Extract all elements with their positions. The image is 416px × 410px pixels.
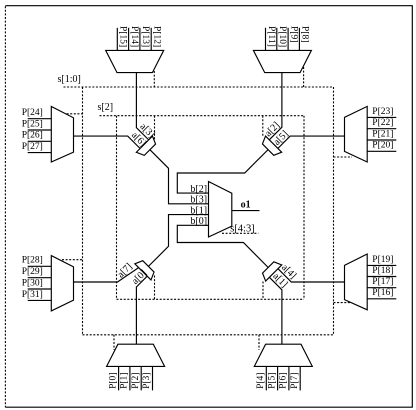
label a[1] xyxy=(271,271,290,290)
wire a[2] (U2 output to U11) xyxy=(269,73,282,140)
label P[6] xyxy=(279,373,289,389)
corner mux U13 (2:1, a[4]/a[1] -> b[0]) xyxy=(260,259,282,281)
s[2] select stub to mux U12 xyxy=(154,276,156,300)
wire a[5] (U4 output to U11) xyxy=(278,136,345,148)
svg-text:P[22]: P[22] xyxy=(372,118,393,128)
mux U6 (right-bottom 4:1, P[19:16]) xyxy=(345,254,368,310)
net s[1:0] dotted bus right xyxy=(333,87,335,335)
label P[10] xyxy=(277,26,287,47)
mux U5 input wires xyxy=(28,266,52,300)
label P[11] xyxy=(266,26,276,47)
svg-text:P[2]: P[2] xyxy=(131,373,141,389)
s[1:0] select stub to mux U6 xyxy=(334,302,353,304)
corner mux U11 (2:1, a[2]/a[5] -> b[2]) xyxy=(260,136,282,158)
net s[2] dotted bus right xyxy=(303,116,305,300)
svg-text:P[31]: P[31] xyxy=(22,290,43,300)
mux U6 input wires xyxy=(367,265,396,298)
label a[2] xyxy=(263,120,282,139)
s[1:0] select stub to mux U3 xyxy=(63,113,83,115)
label P[12] xyxy=(152,26,162,47)
wire a[0] (U7 output to U12) xyxy=(136,276,147,344)
svg-text:b[3]: b[3] xyxy=(190,195,207,206)
mux U5 (left-bottom 4:1, P[28:31]) xyxy=(51,256,73,311)
label a[6] xyxy=(129,130,148,149)
svg-text:P[25]: P[25] xyxy=(22,119,43,129)
svg-text:P[8]: P[8] xyxy=(300,26,310,42)
label a[3] xyxy=(138,121,157,140)
net s[2] dotted bus left xyxy=(116,116,118,300)
wire b[0] (U13 output to U9 pin) xyxy=(177,225,268,267)
label P[13] xyxy=(140,26,150,47)
svg-text:P[24]: P[24] xyxy=(22,108,43,118)
s[2] select stub to mux U13 xyxy=(262,282,264,300)
svg-text:P[16]: P[16] xyxy=(372,288,393,298)
svg-text:P[9]: P[9] xyxy=(288,26,298,42)
svg-text:P[1]: P[1] xyxy=(120,373,130,389)
svg-text:P[14]: P[14] xyxy=(129,26,139,47)
net s[1:0] dotted bus top xyxy=(64,86,334,88)
wire b[1] (U12 output to U9 pin) xyxy=(148,215,208,267)
wire a[1] (U8 output to U13) xyxy=(269,277,282,344)
net s[2] dotted bus bottom xyxy=(117,298,305,300)
svg-text:P[29]: P[29] xyxy=(22,267,43,277)
s[1:0] select stub to mux U5 xyxy=(62,259,83,261)
central mux U9 (4:1, b[3:0] -> o1) xyxy=(209,182,232,238)
mux U2 (top-right 4:1, P[11:8]) xyxy=(253,50,311,72)
label P[3] xyxy=(142,373,152,389)
label a[4] xyxy=(279,262,298,281)
mux U7 (bottom-left 4:1, P[0:3]) xyxy=(107,344,165,366)
s[1:0] select stub to mux U1 xyxy=(153,71,155,87)
svg-text:P[21]: P[21] xyxy=(372,129,393,139)
label P[0] xyxy=(108,373,118,389)
svg-text:P[0]: P[0] xyxy=(108,373,118,389)
s[1:0] select stub to mux U7 xyxy=(113,335,115,350)
label P[9] xyxy=(288,26,298,42)
s[1:0] select stub to mux U8 xyxy=(258,335,260,350)
svg-text:P[30]: P[30] xyxy=(22,278,43,288)
label P[15] xyxy=(118,26,128,47)
wire a[7] (U5 output to U12) xyxy=(74,268,139,282)
svg-text:s[2]: s[2] xyxy=(98,102,114,113)
label P[5] xyxy=(267,373,277,389)
net s[1:0] dotted bus bottom xyxy=(83,334,334,336)
wire a[3] (U1 output to U10) xyxy=(136,73,148,140)
label a[5] xyxy=(272,129,291,148)
svg-text:P[18]: P[18] xyxy=(372,266,393,276)
svg-text:P[26]: P[26] xyxy=(22,131,43,141)
label P[4] xyxy=(256,373,266,389)
svg-text:o1: o1 xyxy=(241,199,251,210)
svg-text:P[12]: P[12] xyxy=(152,26,162,47)
outer border left edge (dotted) xyxy=(4,6,6,407)
net s[4:3] dotted stub at central mux select xyxy=(222,232,258,234)
s[2] select stub to mux U11 xyxy=(262,116,264,136)
mux U3 (left-top 4:1, P[24:27]) xyxy=(51,107,73,163)
label P[2] xyxy=(131,373,141,389)
s[1:0] select stub to mux U2 xyxy=(303,67,305,87)
mux U4 (right-top 4:1, P[23:20]) xyxy=(345,106,368,162)
svg-text:P[20]: P[20] xyxy=(372,141,393,151)
wire b[3] (U10 output to U9 pin) xyxy=(150,150,209,204)
wire a[4] (U6 output to U13) xyxy=(278,269,345,282)
wire b[2] (U11 output to U9 pin) xyxy=(177,150,268,194)
svg-text:P[6]: P[6] xyxy=(279,373,289,389)
label P[1] xyxy=(120,373,130,389)
svg-text:P[7]: P[7] xyxy=(290,373,300,389)
svg-text:P[19]: P[19] xyxy=(372,255,393,265)
svg-text:s[1:0]: s[1:0] xyxy=(58,74,81,85)
label a[7] xyxy=(115,261,134,280)
svg-text:P[23]: P[23] xyxy=(372,107,393,117)
svg-text:P[15]: P[15] xyxy=(118,26,128,47)
mux U3 input wires xyxy=(28,119,52,153)
svg-text:P[17]: P[17] xyxy=(372,277,393,287)
mux U8 input wires xyxy=(266,366,300,390)
mux U8 (bottom-right 4:1, P[4:7]) xyxy=(254,344,312,366)
mux U4 input wires xyxy=(367,117,396,151)
label P[14] xyxy=(129,26,139,47)
svg-text:P[13]: P[13] xyxy=(140,26,150,47)
svg-text:P[10]: P[10] xyxy=(277,26,287,47)
svg-text:P[27]: P[27] xyxy=(22,142,43,152)
wire a[6] (U3 output to U10) xyxy=(74,136,141,148)
svg-text:P[28]: P[28] xyxy=(22,256,43,266)
mux U1 input wires xyxy=(117,28,151,51)
s[1:0] select stub to mux U4 xyxy=(334,156,353,158)
svg-text:P[4]: P[4] xyxy=(256,373,266,389)
s[2] select stub to mux U10 xyxy=(154,116,156,141)
corner mux U10 (2:1, a[3]/a[6] -> b[3]) xyxy=(136,136,158,158)
svg-text:P[3]: P[3] xyxy=(142,373,152,389)
svg-text:b[2]: b[2] xyxy=(190,184,207,195)
mux U1 (top-left 4:1, P[15:12]) xyxy=(106,50,164,72)
svg-text:b[1]: b[1] xyxy=(190,205,207,216)
wire o1 (U9 output) xyxy=(232,210,260,212)
net s[1:0] dotted bus left xyxy=(82,87,84,335)
net s[2] dotted bus top xyxy=(100,115,305,117)
label a[0] xyxy=(130,268,149,287)
mux U7 input wires xyxy=(119,366,153,390)
mux U2 input wires xyxy=(266,28,300,51)
svg-text:P[5]: P[5] xyxy=(267,373,277,389)
corner mux U12 (2:1, a[7]/a[0] -> b[1]) xyxy=(135,258,157,280)
svg-text:P[11]: P[11] xyxy=(266,26,276,47)
label P[8] xyxy=(300,26,310,42)
svg-text:b[0]: b[0] xyxy=(190,216,207,227)
label P[7] xyxy=(290,373,300,389)
